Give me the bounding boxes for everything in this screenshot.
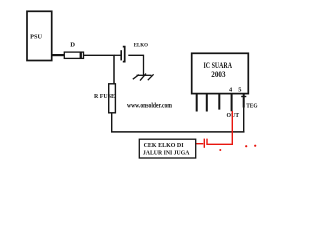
svg-text:TEG: TEG [246,103,257,110]
svg-text:ELKO: ELKO [134,42,148,48]
ground chassis symbol [133,74,154,81]
red wire from OUT pin 4 down and left to red capacitor [207,111,232,144]
pin leg 3 [218,94,220,110]
pin leg 2 [206,94,208,112]
capacitor ELKO right plate [123,47,125,62]
svg-text:OUT: OUT [227,112,240,119]
diode D cathode band [80,52,82,58]
wire junction to ELKO [114,54,121,56]
svg-text:2003: 2003 [211,70,225,79]
PSU box [27,11,52,60]
wire diode to junction node [84,54,115,56]
red capacitor plate [203,139,205,148]
wire PSU to diode D [52,54,65,56]
svg-text:www.onsolder.com: www.onsolder.com [127,102,172,109]
note box CEK ELKO [139,139,195,158]
svg-text:5: 5 [238,86,241,93]
svg-text:IC SUARA: IC SUARA [204,61,233,70]
wire bottom rail [111,131,245,133]
svg-text:PSU: PSU [30,33,42,40]
red dot 3 [254,145,256,147]
svg-text:R FUSE: R FUSE [94,93,115,100]
wire R FUSE to bottom rail [111,113,113,132]
diode D body [64,52,83,58]
red dot 1 [219,149,221,151]
IC U1 IC SUARA 2003 box [192,53,249,93]
capacitor ELKO left plate [120,50,122,60]
resistor R FUSE [109,84,116,113]
pin leg 1 [196,94,198,112]
svg-text:JALUR INI JUGA: JALUR INI JUGA [143,149,190,156]
red dot 2 [245,145,247,147]
red wire note box to capacitor [196,143,204,145]
wire junction down to R FUSE [113,55,115,84]
pin 5 tick mark [241,96,246,98]
svg-text:D: D [70,42,75,49]
pin leg 4 [231,94,233,111]
pin leg 5 [243,94,245,108]
svg-text:CEK ELKO DI: CEK ELKO DI [144,142,184,149]
wire pin 5 down to bottom rail [243,107,245,132]
wire ELKO to ground [128,55,143,76]
